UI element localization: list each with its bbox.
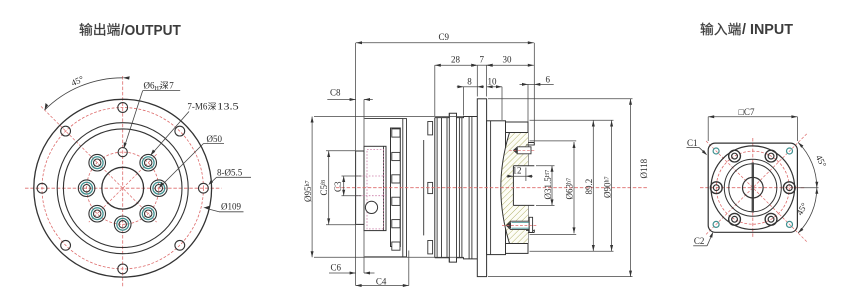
45 degree angular dimension arc — [45, 78, 123, 110]
svg-text:Ø109: Ø109 — [221, 202, 241, 212]
svg-text:C3: C3 — [333, 181, 343, 192]
svg-text:7-M6: 7-M6 — [187, 102, 207, 112]
left view diagonal centerline 135-315 — [41, 106, 157, 222]
bottom screw centerline — [502, 224, 537, 226]
screw tip — [506, 222, 511, 229]
output stub shaft C5 — [356, 151, 364, 224]
input bell housing block — [506, 122, 529, 253]
svg-text:C4: C4 — [376, 276, 387, 286]
cylinder section — [403, 119, 407, 257]
svg-text:C6: C6 — [331, 263, 342, 273]
plug hole circle on disk — [365, 201, 377, 213]
housing right ring — [487, 121, 506, 255]
bolt circle D50 dashed — [87, 152, 159, 224]
top hole centerline — [509, 149, 536, 151]
housing inner verticals — [437, 113, 472, 262]
svg-text:C8: C8 — [330, 88, 341, 98]
45 dim arc upper — [798, 142, 817, 187]
svg-text:Ø31.5H7: Ø31.5H7 — [543, 170, 553, 200]
input bore rect D31.5 — [513, 166, 534, 206]
svg-text:89.2: 89.2 — [584, 179, 594, 195]
dowel hole 6H7 top — [118, 148, 127, 157]
front ring cylinder — [391, 128, 401, 247]
corner holes — [713, 148, 792, 227]
bolt circle D109 dashed — [42, 108, 203, 269]
bore step line — [525, 168, 527, 182]
right view centerline horizontal — [700, 187, 806, 189]
right view diagonal B — [706, 133, 808, 235]
svg-text:45°: 45° — [70, 74, 86, 88]
svg-text:Ø50: Ø50 — [207, 134, 223, 144]
right view centerline vertical — [752, 138, 754, 238]
svg-text:12: 12 — [513, 166, 522, 176]
output flange disk — [364, 146, 386, 230]
main centerline — [336, 187, 648, 189]
recess mouth lines D63 — [526, 144, 534, 146]
svg-text:30: 30 — [503, 55, 513, 65]
bell outline — [501, 133, 510, 244]
svg-text:6: 6 — [546, 75, 551, 85]
circle r59.3 ring — [63, 129, 182, 248]
svg-text:Ø63h7: Ø63h7 — [564, 178, 574, 200]
45 dim arc lower — [798, 188, 817, 233]
svg-text:28: 28 — [451, 55, 461, 65]
svg-text:C2: C2 — [694, 236, 705, 246]
center bore circle — [102, 167, 144, 209]
screw washer — [529, 217, 532, 232]
input bore circle — [743, 177, 764, 198]
mounting ear plate D118 — [477, 99, 486, 277]
disk inner face line — [383, 146, 385, 230]
svg-text:Ø118: Ø118 — [639, 158, 649, 178]
8 outer holes 5.5 — [37, 103, 208, 274]
inner ring line — [423, 140, 425, 235]
title output — [80, 23, 93, 36]
svg-text:8: 8 — [467, 77, 472, 87]
outer screw band — [428, 122, 433, 254]
left view diagonal centerline 45-225 — [89, 154, 157, 222]
bottom screw — [506, 221, 529, 229]
left view centerline vertical — [122, 76, 124, 287]
circle r65.5 body — [57, 123, 188, 254]
input spigot D90 — [528, 143, 534, 233]
svg-text:7: 7 — [169, 81, 174, 91]
45 dim extension line — [799, 187, 819, 189]
clamp slot bar — [752, 163, 754, 213]
big circle — [711, 146, 795, 230]
title input — [701, 23, 714, 36]
top hole tip — [514, 147, 518, 153]
svg-text:8-Ø5.5: 8-Ø5.5 — [217, 168, 243, 178]
svg-text:C5f8: C5f8 — [319, 180, 329, 196]
hidden rect pink — [367, 150, 384, 229]
hidden bore lines pink — [356, 175, 386, 177]
outer circle D118 flange — [34, 99, 212, 277]
svg-text:10: 10 — [488, 77, 498, 87]
svg-text:Ø90h7: Ø90h7 — [602, 177, 612, 199]
svg-text:7: 7 — [480, 55, 485, 65]
circle r24 — [729, 164, 777, 212]
svg-text:C9: C9 — [439, 32, 450, 42]
6 screw holes — [710, 150, 795, 225]
7 M6 tapped holes — [78, 154, 167, 232]
svg-text:C1: C1 — [687, 138, 698, 148]
housing left profile — [435, 113, 478, 262]
top tapped hole — [514, 147, 532, 154]
svg-text:Ø95h7: Ø95h7 — [303, 181, 313, 203]
right view diagonal A — [706, 141, 808, 243]
bell flange hatched section — [501, 133, 528, 244]
left view centerline horizontal — [25, 187, 222, 189]
svg-text:/ INPUT: / INPUT — [742, 22, 793, 38]
svg-text:/OUTPUT: /OUTPUT — [121, 23, 181, 39]
front ring cap screws — [392, 129, 400, 250]
svg-text:45°: 45° — [814, 153, 829, 169]
bolt circle dashed — [716, 151, 789, 224]
circle r28.5 — [724, 159, 781, 216]
svg-text:□C7: □C7 — [739, 107, 755, 117]
square flange — [708, 143, 797, 232]
svg-text:45°: 45° — [794, 201, 809, 217]
svg-text:13.5: 13.5 — [217, 102, 239, 112]
